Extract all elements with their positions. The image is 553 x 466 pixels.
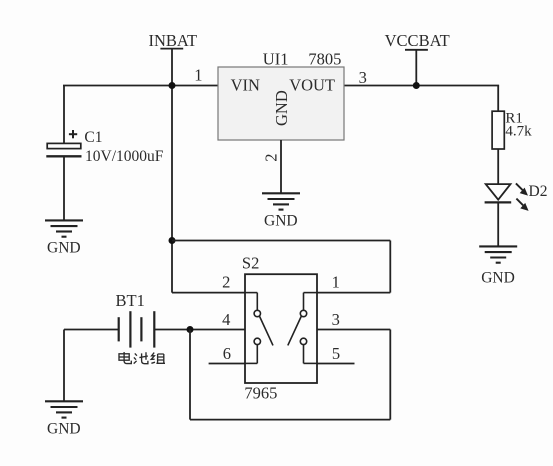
- svg-text:1: 1: [332, 273, 340, 292]
- ground (regulator): [262, 193, 300, 229]
- ground (D2): [479, 246, 517, 286]
- capacitor C1 (polarized): [46, 130, 81, 156]
- svg-text:GND: GND: [47, 239, 81, 256]
- svg-text:GND: GND: [481, 270, 515, 287]
- wire INBAT vertical down to switch pin 2 row: [171, 49, 173, 293]
- wire switch pin 3: [317, 329, 390, 331]
- LED D2: [485, 183, 529, 211]
- wire switch pin 4 to battery junction: [190, 329, 245, 331]
- net label VCCBAT: [385, 31, 450, 50]
- wire bottom route vertical left: [189, 330, 191, 420]
- svg-text:7805: 7805: [308, 50, 341, 69]
- value label battery pack (CJK drawn): [119, 352, 165, 364]
- wire switch pin 6 stub: [209, 363, 245, 365]
- junction dot at VCCBAT / main wire: [413, 82, 420, 89]
- svg-text:GND: GND: [264, 212, 298, 229]
- svg-text:UI1: UI1: [263, 50, 289, 69]
- svg-text:4.7k: 4.7k: [505, 123, 532, 139]
- svg-text:VIN: VIN: [231, 75, 260, 94]
- svg-text:5: 5: [332, 344, 340, 363]
- wire C1 to ground: [63, 156, 65, 220]
- svg-text:6: 6: [223, 344, 231, 363]
- switch S2 box: [242, 253, 317, 402]
- switch internal left pole: [245, 293, 273, 364]
- svg-text:4: 4: [222, 310, 230, 329]
- ground (C1): [45, 220, 83, 256]
- svg-text:INBAT: INBAT: [149, 31, 198, 50]
- svg-text:1: 1: [194, 65, 202, 84]
- wire switch pin 5 stub: [317, 363, 355, 365]
- wire top route horizontal: [172, 240, 390, 242]
- junction dot battery / pin 4 / bottom route: [187, 326, 194, 333]
- svg-text:D2: D2: [529, 183, 548, 200]
- svg-text:GND: GND: [47, 420, 81, 437]
- pin 2 wire below regulator: [280, 140, 282, 193]
- switch internal right pole: [288, 293, 317, 364]
- svg-text:3: 3: [359, 68, 367, 87]
- svg-text:2: 2: [262, 153, 281, 161]
- wire left branch down to capacitor C1: [63, 86, 65, 144]
- wire R1 to LED: [497, 149, 499, 184]
- net label INBAT: [149, 31, 198, 50]
- wire switch pin 2: [172, 292, 245, 294]
- svg-text:C1: C1: [84, 129, 102, 146]
- svg-text:GND: GND: [272, 90, 291, 126]
- wire bottom route horizontal: [190, 419, 390, 421]
- wire VCCBAT vertical: [415, 50, 417, 86]
- svg-text:BT1: BT1: [116, 291, 145, 310]
- svg-text:S2: S2: [242, 253, 259, 272]
- junction dot at INBAT / main wire: [169, 82, 176, 89]
- resistor R1: [492, 111, 504, 149]
- svg-text:VCCBAT: VCCBAT: [385, 31, 450, 50]
- wire top route vertical to pin 1: [389, 241, 391, 293]
- junction dot INBAT wire / top route: [169, 237, 176, 244]
- wire main horizontal left: C1 branch to VIN pin: [63, 85, 218, 87]
- wire LED to ground: [497, 202, 499, 246]
- wire VCC corner down to R1: [497, 86, 499, 112]
- svg-text:2: 2: [222, 273, 230, 292]
- wire switch pin 1: [317, 292, 390, 294]
- svg-text:3: 3: [332, 310, 340, 329]
- wire battery to ground: [63, 330, 65, 402]
- wire bottom route vertical right to pin 3: [389, 330, 391, 420]
- svg-text:VOUT: VOUT: [289, 75, 335, 94]
- svg-text:10V/1000uF: 10V/1000uF: [85, 148, 164, 165]
- battery BT1: [64, 311, 190, 347]
- wire main horizontal right: VOUT pin to R1 branch corner: [344, 85, 499, 87]
- op-amp-style regulator U1 (7805) box: [218, 50, 344, 140]
- ground (battery): [45, 401, 83, 437]
- svg-text:7965: 7965: [244, 384, 277, 403]
